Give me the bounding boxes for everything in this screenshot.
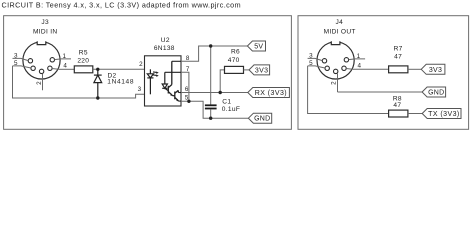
- svg-text:6N138: 6N138: [154, 45, 175, 52]
- wire R5 to U2 pin2: [93, 68, 145, 70]
- node junction pin7/pin5: [187, 100, 190, 103]
- svg-text:5V: 5V: [254, 44, 263, 51]
- U2 internal darlington Q2: [173, 90, 179, 101]
- U2 internal darlington Q1: [168, 61, 172, 95]
- svg-text:MIDI OUT: MIDI OUT: [324, 28, 356, 35]
- wire U2 pin7 down to pin5 net: [181, 72, 189, 101]
- svg-text:2: 2: [330, 81, 337, 85]
- svg-text:TX (3V3): TX (3V3): [428, 111, 460, 118]
- right enclosure box: [298, 16, 469, 130]
- svg-text:MIDI IN: MIDI IN: [33, 28, 57, 35]
- resistor R6 pull-up: [220, 49, 249, 93]
- svg-text:47: 47: [393, 102, 401, 109]
- svg-text:3: 3: [309, 53, 313, 60]
- U2 pin number labels: [138, 55, 190, 101]
- wire J4 pin4 to R7: [353, 68, 389, 70]
- net tag 3V3 (left): [249, 65, 270, 75]
- svg-text:1: 1: [62, 53, 66, 60]
- svg-text:3V3: 3V3: [255, 67, 268, 74]
- wire J4 pin5 to R8: [308, 66, 389, 114]
- node junction D2 bottom: [96, 96, 99, 99]
- J4 pin numbers: [309, 53, 361, 85]
- capacitor C1: [205, 46, 217, 118]
- diode D2 1N4148: [94, 69, 102, 98]
- resistor R5: [74, 49, 93, 73]
- U2 internal pin6 stub: [178, 92, 181, 94]
- connector J4 label: [324, 19, 356, 35]
- svg-text:R6: R6: [231, 49, 240, 56]
- svg-text:47: 47: [394, 54, 402, 61]
- net tag 5V: [247, 41, 265, 51]
- J4 pin contact circles: [322, 58, 348, 74]
- net tag GND (left): [248, 113, 271, 123]
- svg-text:3V3: 3V3: [429, 67, 442, 74]
- svg-text:GND: GND: [428, 90, 444, 97]
- U2 internal pin7 rail: [165, 71, 181, 73]
- svg-text:470: 470: [228, 57, 240, 64]
- svg-text:J3: J3: [41, 19, 49, 26]
- net tag TX (3V3): [422, 109, 461, 119]
- svg-text:2: 2: [139, 61, 143, 68]
- J4 pin stubs: [308, 58, 366, 92]
- resistor R8: [389, 96, 423, 118]
- svg-text:CIRCUIT B: Teensy 4.x, 3.x, LC: CIRCUIT B: Teensy 4.x, 3.x, LC (3.3V) ad…: [2, 0, 242, 9]
- net tag RX (3V3): [248, 88, 290, 98]
- U2 internal photodiode: [162, 72, 168, 91]
- wire J3 pin5 to ground loop: [13, 66, 145, 98]
- node junction D2 top: [96, 68, 99, 71]
- svg-text:5: 5: [14, 60, 18, 67]
- U2 internal LED: [147, 69, 153, 94]
- left enclosure box: [4, 16, 292, 130]
- svg-text:6: 6: [185, 86, 189, 93]
- svg-text:1: 1: [357, 53, 361, 60]
- svg-text:220: 220: [77, 58, 89, 65]
- svg-text:U2: U2: [161, 37, 170, 44]
- net tag 3V3 (right): [421, 64, 445, 74]
- svg-text:4: 4: [357, 63, 361, 70]
- U2 internal pin8 rail: [172, 60, 181, 62]
- net tag GND (right): [422, 87, 446, 97]
- node junction R6 bottom on RX wire: [219, 91, 222, 94]
- svg-text:2: 2: [36, 81, 43, 85]
- resistor R7: [389, 45, 422, 72]
- svg-text:4: 4: [63, 63, 67, 70]
- J3 pin stubs: [13, 58, 72, 90]
- U2 LED light arrows: [153, 72, 159, 77]
- J3 pin contact circles: [28, 58, 54, 74]
- svg-text:R7: R7: [394, 45, 403, 52]
- J3 pin numbers: [14, 53, 67, 85]
- svg-text:GND: GND: [254, 116, 270, 123]
- wire J4 pin2 to GND: [338, 91, 423, 93]
- wire U2 pin8 to 5V rail: [181, 46, 247, 61]
- node junction C1 bottom on gnd: [209, 117, 212, 120]
- svg-text:0.1uF: 0.1uF: [222, 106, 240, 113]
- svg-text:R5: R5: [79, 49, 88, 56]
- svg-text:3: 3: [138, 86, 142, 93]
- wire U2 pin6 to RX: [181, 92, 248, 94]
- svg-text:5: 5: [309, 60, 313, 67]
- connector J4 DIN-5 body: [317, 40, 354, 79]
- U2 internal pin5 stub: [179, 100, 181, 102]
- wire U2 pin5 to gnd loop: [181, 101, 248, 118]
- svg-text:3: 3: [14, 53, 18, 60]
- connector J3 label: [33, 19, 57, 35]
- svg-text:J4: J4: [336, 19, 344, 26]
- connector J3 DIN-5 body: [23, 40, 60, 79]
- wire J3 pin4 to R5: [59, 68, 75, 70]
- optocoupler U2 box: [145, 56, 182, 106]
- svg-text:1N4148: 1N4148: [107, 79, 134, 86]
- node junction C1 top on 5V rail: [209, 44, 212, 47]
- svg-text:C1: C1: [222, 99, 231, 106]
- svg-text:RX (3V3): RX (3V3): [255, 90, 287, 97]
